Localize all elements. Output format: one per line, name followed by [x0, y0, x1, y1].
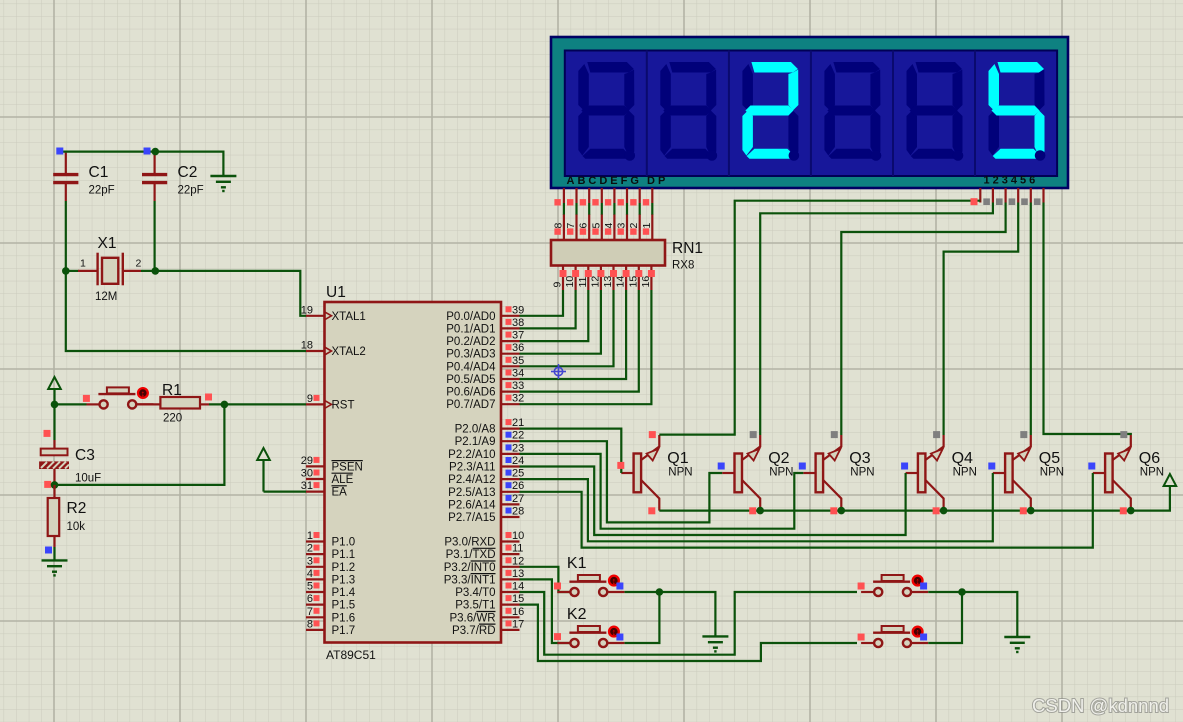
display digit 6 showing 5 [989, 62, 1045, 159]
svg-text:NPN: NPN [850, 467, 874, 479]
power VCC arrow (reset) [48, 377, 61, 404]
wire RN1 pin 11 to P0.2 [520, 290, 589, 341]
display pin3 wire marker [996, 198, 1003, 205]
wire RN1 pin 9 to P0.0 [520, 290, 564, 316]
svg-text:P3.5/T1: P3.5/T1 [455, 600, 495, 612]
svg-text:7: 7 [565, 223, 577, 229]
junction Q2 emitter [756, 507, 764, 515]
svg-text:Q1: Q1 [667, 450, 688, 467]
Q3 collector pin marker [831, 431, 838, 438]
Q5 emitter pin marker [1020, 507, 1027, 514]
svg-text:22pF: 22pF [89, 185, 115, 197]
display pin6 wire marker [1034, 198, 1041, 205]
svg-text:37: 37 [512, 330, 524, 342]
display pin5 wire marker [1021, 198, 1028, 205]
svg-text:P0.5/AD5: P0.5/AD5 [446, 374, 495, 386]
svg-text:RX8: RX8 [672, 260, 694, 272]
U1 pin 4 P1.3 [306, 568, 355, 587]
capacitor C2 [142, 153, 167, 201]
ground (crystal section) [210, 176, 236, 192]
svg-text:R2: R2 [67, 500, 87, 517]
svg-text:P1.5: P1.5 [332, 600, 356, 612]
svg-text:1: 1 [80, 258, 86, 270]
wire end marker [144, 148, 151, 155]
svg-text:24: 24 [512, 455, 524, 467]
U1 pin 32 P0.7/AD7 [446, 393, 524, 412]
svg-text:8: 8 [552, 223, 564, 229]
reset push button [83, 387, 153, 408]
display digit pins 1-6 [980, 188, 1043, 203]
svg-text:P3.7/RD: P3.7/RD [452, 625, 495, 637]
U1 pin 21 P2.0/A8 [455, 417, 525, 436]
K2 stub marker [554, 633, 561, 640]
Q2 emitter pin marker [749, 507, 756, 514]
svg-text:P0.7/AD7: P0.7/AD7 [446, 399, 495, 411]
svg-text:15: 15 [627, 276, 639, 288]
svg-text:35: 35 [512, 355, 524, 367]
wire P3.4 to right top button [520, 592, 858, 655]
svg-text:P3.0/RXD: P3.0/RXD [444, 537, 495, 549]
svg-text:220: 220 [163, 413, 182, 425]
RN1 top pins 8..1 with wires from display [552, 203, 652, 240]
wire P2.4 to Q5 base [520, 473, 993, 541]
svg-text:P3.6/WR: P3.6/WR [449, 612, 495, 624]
svg-text:↕: ↕ [612, 576, 617, 586]
junction RST node [221, 401, 229, 409]
svg-text:23: 23 [512, 442, 524, 454]
push button K3 (right top) [858, 575, 929, 596]
U1 pin 31 EA [301, 480, 347, 499]
U1 pin 25 P2.4/A12 [448, 468, 524, 487]
wire P3.5 to right bottom button [520, 605, 858, 661]
wire display pin1 to Q1 [659, 201, 980, 435]
junction Q5 emitter [1027, 507, 1035, 515]
svg-text:P1.1: P1.1 [332, 549, 356, 561]
Q4 collector pin marker [933, 431, 940, 438]
svg-text:Q4: Q4 [952, 450, 973, 467]
svg-text:P3.4/T0: P3.4/T0 [455, 587, 495, 599]
svg-text:P1.6: P1.6 [332, 612, 356, 624]
svg-text:13: 13 [512, 568, 524, 580]
svg-text:↕: ↕ [612, 627, 617, 637]
svg-text:36: 36 [512, 342, 524, 354]
ground (right buttons) [1004, 637, 1030, 653]
wire K1 right to ground [625, 592, 716, 636]
capacitor C1 [53, 153, 78, 201]
U1 pin 28 P2.7/A15 [448, 506, 524, 525]
transistor Q5 [993, 435, 1031, 511]
wire right junction down to bottom button [928, 592, 962, 643]
svg-text:PSEN: PSEN [332, 461, 363, 473]
svg-text:P0.1/AD1: P0.1/AD1 [446, 323, 495, 335]
ground (reset section) [42, 560, 68, 576]
wire VCC to reset button [55, 403, 87, 405]
transistor Q3 [803, 435, 841, 511]
wire P2.5 to Q6 base [520, 473, 1093, 548]
svg-text:13: 13 [602, 276, 614, 288]
U1 pin 38 P0.1/AD1 [446, 317, 524, 336]
wire right top button to ground [928, 592, 1017, 637]
crystal X1 [78, 253, 141, 286]
Q1 emitter pin marker [648, 507, 655, 514]
wire transistor common emitter line to VCC [659, 487, 1170, 511]
wire P2.0 to Q1 base [520, 429, 622, 473]
svg-text:5: 5 [307, 581, 313, 593]
svg-text:ABCDEFG: ABCDEFG [567, 175, 642, 187]
wire RN1 pin 16 to P0.7 [520, 290, 652, 404]
svg-text:30: 30 [301, 468, 313, 480]
U1 pin 8 P1.7 [306, 618, 355, 637]
U1 pin 19 XTAL1 [301, 304, 366, 323]
C3 top marker [44, 430, 51, 437]
svg-text:ALE: ALE [332, 474, 354, 486]
U1 pin 2 P1.1 [306, 543, 355, 562]
wire R2 to ground [53, 547, 55, 560]
Q1 base marker [617, 462, 624, 469]
svg-text:CSDN @kdnnnd: CSDN @kdnnnd [1032, 695, 1169, 716]
Q4 emitter pin marker [933, 507, 940, 514]
U1 pin 29 PSEN [301, 455, 363, 474]
svg-text:21: 21 [512, 417, 524, 429]
transistor Q2 [722, 435, 760, 511]
svg-text:P1.3: P1.3 [332, 574, 356, 586]
wire P2.2 to Q3 base [520, 454, 804, 529]
svg-text:4: 4 [603, 223, 615, 229]
wire display pin5 to Q5 [1030, 203, 1032, 436]
U1 pin 33 P0.6/AD6 [446, 380, 524, 399]
U1 pin 37 P0.2/AD2 [446, 330, 524, 349]
display digit 3 showing 2 [742, 62, 798, 159]
watermark [1032, 695, 1169, 716]
Q5 base marker [988, 463, 995, 470]
svg-text:1: 1 [641, 223, 653, 229]
U1 pin 1 P1.0 [306, 530, 355, 549]
display digit 4 (off) [824, 62, 880, 159]
U1 pin 11 P3.1/TXD [446, 543, 524, 562]
svg-text:16: 16 [512, 606, 524, 618]
U1 pin 39 P0.0/AD0 [446, 304, 524, 323]
junction right buttons common [958, 588, 966, 596]
push button K1 [557, 555, 624, 596]
svg-text:DP: DP [647, 175, 668, 187]
R2 bottom marker [45, 547, 52, 554]
svg-text:P3.3/INT1: P3.3/INT1 [444, 574, 496, 586]
svg-text:1: 1 [307, 530, 313, 542]
U1 pin 13 P3.3/INT1 [444, 568, 525, 587]
svg-text:RN1: RN1 [672, 240, 703, 257]
cursor crosshair marker [551, 364, 566, 379]
svg-text:33: 33 [512, 380, 524, 392]
svg-text:2: 2 [136, 258, 142, 270]
wire C1 bottom rail to XTAL2 [66, 201, 306, 351]
svg-text:P1.2: P1.2 [332, 562, 356, 574]
U1 pin 16 P3.6/WR [449, 606, 524, 625]
U1 pin 14 P3.4/T0 [455, 581, 524, 600]
U1 pin 22 P2.1/A9 [455, 430, 525, 449]
svg-text:12M: 12M [95, 291, 117, 303]
svg-text:10: 10 [512, 530, 524, 542]
svg-text:AT89C51: AT89C51 [326, 648, 376, 662]
Q3 emitter pin marker [830, 507, 837, 514]
junction X1 pin1 [62, 267, 70, 275]
svg-text:3: 3 [616, 223, 628, 229]
U1 pin 18 XTAL2 [301, 340, 366, 359]
wire RN1 pin 12 to P0.3 [520, 290, 601, 354]
U1 pin 3 P1.2 [306, 555, 355, 574]
wire C2 bottom to X1 pin2 and XTAL1 [154, 201, 156, 271]
svg-text:NPN: NPN [668, 467, 692, 479]
svg-text:22: 22 [512, 430, 524, 442]
wire end marker [56, 148, 63, 155]
wire VCC to EA [264, 491, 307, 493]
svg-text:2: 2 [628, 223, 640, 229]
svg-text:P0.6/AD6: P0.6/AD6 [446, 387, 495, 399]
svg-text:Q2: Q2 [768, 450, 789, 467]
power VCC arrow (right) [1164, 474, 1177, 486]
wire VCC rail down to C3 [53, 404, 55, 440]
transistor Q6 [1093, 435, 1131, 511]
svg-text:P2.0/A8: P2.0/A8 [455, 424, 496, 436]
svg-text:12: 12 [589, 276, 601, 288]
U1 pin 23 P2.2/A10 [448, 442, 524, 461]
svg-text:32: 32 [512, 393, 524, 405]
svg-text:P1.0: P1.0 [332, 537, 356, 549]
svg-text:P0.2/AD2: P0.2/AD2 [446, 336, 495, 348]
C3 bottom marker [44, 481, 51, 488]
svg-text:P1.7: P1.7 [332, 625, 356, 637]
Q6 emitter pin marker [1120, 507, 1127, 514]
7-segment display module (6-digit) [551, 37, 1068, 188]
svg-text:Q5: Q5 [1039, 450, 1060, 467]
svg-text:29: 29 [301, 455, 313, 467]
display digit 1 (off) [578, 62, 634, 159]
transistor Q1 [621, 435, 659, 511]
wire P2.1 to Q2 base [520, 441, 723, 522]
svg-text:14: 14 [615, 276, 627, 288]
svg-text:38: 38 [512, 317, 524, 329]
resistor network RN1 body [551, 240, 665, 266]
wire K1 junction down to K2 [625, 592, 660, 643]
svg-text:U1: U1 [326, 284, 346, 301]
svg-text:25: 25 [512, 468, 524, 480]
svg-text:P2.3/A11: P2.3/A11 [449, 462, 495, 474]
Q6 base marker [1088, 463, 1095, 470]
svg-text:123456: 123456 [984, 175, 1039, 187]
svg-text:22pF: 22pF [178, 185, 204, 197]
wire display pin4 to Q4 [944, 203, 1019, 436]
svg-text:NPN: NPN [953, 467, 977, 479]
junction reset rail [51, 401, 59, 409]
svg-text:P2.6/A14: P2.6/A14 [448, 499, 496, 511]
svg-text:P3.2/INT0: P3.2/INT0 [444, 562, 496, 574]
svg-text:6: 6 [578, 223, 590, 229]
svg-text:↕: ↕ [141, 388, 146, 398]
svg-text:4: 4 [307, 568, 313, 580]
display pin4 wire marker [1009, 198, 1016, 205]
U1 pin 10 P3.0/RXD [444, 530, 524, 549]
svg-text:P2.2/A10: P2.2/A10 [448, 449, 495, 461]
svg-text:8: 8 [307, 618, 313, 630]
push button K4 (right bottom) [858, 626, 929, 647]
wire display pin6 to Q6 [1044, 203, 1131, 436]
wire display pin3 to Q3 [841, 203, 1005, 436]
wire RN1 pin 15 to P0.6 [520, 290, 639, 392]
svg-text:16: 16 [640, 276, 652, 288]
Q3 base marker [799, 463, 806, 470]
svg-text:P2.4/A12: P2.4/A12 [448, 474, 495, 486]
junction Q6 emitter [1127, 507, 1135, 515]
svg-text:P0.4/AD4: P0.4/AD4 [446, 361, 496, 373]
svg-text:P0.0/AD0: P0.0/AD0 [446, 311, 495, 323]
svg-text:10uF: 10uF [75, 473, 101, 485]
svg-text:P1.4: P1.4 [332, 587, 356, 599]
svg-text:18: 18 [301, 340, 313, 352]
junction C3/R2 [51, 481, 59, 489]
U1 pin 26 P2.5/A13 [448, 480, 524, 499]
resistor R1 [137, 397, 209, 409]
svg-text:9: 9 [552, 282, 564, 288]
junction Q4 emitter [940, 507, 948, 515]
svg-text:39: 39 [512, 304, 524, 316]
svg-text:P0.3/AD3: P0.3/AD3 [446, 349, 495, 361]
wire RN1 pin 14 to P0.5 [520, 290, 627, 379]
display digit 2 (off) [660, 62, 716, 159]
U1 pin 27 P2.6/A14 [448, 493, 524, 512]
U1 pin 9 RST [306, 393, 355, 412]
svg-text:14: 14 [512, 581, 524, 593]
svg-text:R1: R1 [162, 382, 182, 399]
svg-text:6: 6 [307, 593, 313, 605]
svg-text:31: 31 [301, 480, 313, 492]
svg-text:10k: 10k [67, 521, 86, 533]
wire RN1 pin 10 to P0.1 [520, 290, 576, 328]
svg-text:2: 2 [307, 543, 313, 555]
Q6 collector pin marker [1120, 431, 1127, 438]
svg-text:19: 19 [301, 304, 313, 316]
U1 pin 12 P3.2/INT0 [444, 555, 525, 574]
svg-text:28: 28 [512, 506, 524, 518]
capacitor C3 (electrolytic) [39, 440, 69, 485]
Q1 collector pin marker [649, 431, 656, 438]
U1 pin 5 P1.4 [306, 581, 356, 600]
svg-text:5: 5 [590, 223, 602, 229]
svg-text:P2.5/A13: P2.5/A13 [448, 487, 495, 499]
power VCC arrow (EA) [257, 448, 270, 492]
svg-text:15: 15 [512, 593, 524, 605]
svg-text:Q3: Q3 [849, 450, 870, 467]
wire R1 to RST [209, 403, 306, 405]
svg-text:NPN: NPN [1140, 467, 1164, 479]
wire display pin2 to Q2 [760, 203, 993, 436]
svg-text:26: 26 [512, 480, 524, 492]
svg-text:C2: C2 [178, 164, 198, 181]
display segment pins A-DP [554, 188, 652, 206]
svg-text:10: 10 [564, 276, 576, 288]
U1 pin 7 P1.6 [306, 606, 355, 625]
U1 pin 30 ALE [301, 468, 354, 487]
push button K2 [557, 606, 624, 647]
U1 pin 24 P2.3/A11 [449, 455, 524, 474]
svg-text:P2.7/A15: P2.7/A15 [448, 512, 495, 524]
U1 pin 17 P3.7/RD [452, 618, 524, 637]
svg-text:7: 7 [307, 606, 313, 618]
U1 pin 35 P0.4/AD4 [446, 355, 524, 374]
svg-text:11: 11 [512, 543, 523, 555]
junction X1 pin2 / C2 [152, 267, 160, 275]
svg-text:K1: K1 [567, 555, 587, 572]
svg-text:NPN: NPN [1040, 467, 1064, 479]
svg-text:9: 9 [307, 393, 313, 405]
junction C2 top [152, 148, 160, 156]
junction K1/K2 common [656, 588, 664, 596]
svg-text:34: 34 [512, 368, 524, 380]
svg-text:12: 12 [512, 555, 524, 567]
wire P3.3 to K2 [520, 579, 572, 643]
svg-text:XTAL2: XTAL2 [332, 346, 366, 358]
svg-text:X1: X1 [98, 235, 117, 252]
junction Q3 emitter [838, 507, 846, 515]
wire RN1 pin 13 to P0.4 [520, 290, 614, 366]
wire P2.3 to Q4 base [520, 467, 906, 536]
svg-text:↕: ↕ [915, 576, 920, 586]
svg-text:3: 3 [307, 555, 313, 567]
Q5 collector pin marker [1020, 431, 1027, 438]
Q4 base marker [901, 463, 908, 470]
svg-text:EA: EA [332, 487, 348, 499]
svg-text:P3.1/TXD: P3.1/TXD [446, 549, 496, 561]
svg-text:P2.1/A9: P2.1/A9 [455, 436, 496, 448]
Q2 collector pin marker [750, 431, 757, 438]
transistor Q4 [906, 435, 944, 511]
ground (K1/K2) [702, 636, 728, 652]
display digit 5 (off) [907, 62, 963, 159]
svg-text:17: 17 [512, 618, 524, 630]
wire rail to X1 pin1 [66, 270, 79, 272]
wire C1 top to C2 top to ground [60, 152, 223, 176]
svg-text:RST: RST [332, 399, 355, 411]
svg-text:↕: ↕ [915, 627, 920, 637]
U1 pin 15 P3.5/T1 [455, 593, 524, 612]
U1 pin 34 P0.5/AD5 [446, 368, 524, 387]
svg-text:K2: K2 [567, 606, 587, 623]
display pin1 wire marker [971, 198, 978, 205]
svg-text:11: 11 [577, 276, 589, 287]
svg-text:27: 27 [512, 493, 524, 505]
K1 stub marker [554, 583, 561, 590]
svg-text:NPN: NPN [769, 467, 793, 479]
svg-text:Q6: Q6 [1139, 450, 1160, 467]
RN1 bottom pins 9..16 [552, 266, 655, 291]
svg-text:C3: C3 [75, 447, 95, 464]
wire RST node down to C3 bottom rail [55, 404, 225, 485]
resistor R2 [48, 485, 60, 547]
microcontroller U1 AT89C51 body [325, 302, 502, 643]
wire P3.2 to K1 [520, 567, 572, 592]
U1 pin 6 P1.5 [306, 593, 355, 612]
svg-text:XTAL1: XTAL1 [332, 311, 366, 323]
R1 lead marker [205, 394, 212, 401]
Q2 base marker [718, 463, 725, 470]
display pin2 wire marker [983, 198, 990, 205]
svg-text:C1: C1 [89, 164, 109, 181]
U1 pin 36 P0.3/AD3 [446, 342, 524, 361]
